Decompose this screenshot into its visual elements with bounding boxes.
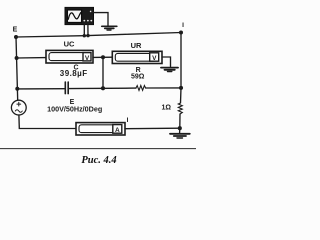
ground (scope)	[102, 26, 117, 30]
wire middle rail left segment	[17, 88, 64, 90]
wire middle rail center segment	[69, 87, 136, 90]
junction left UC branch	[15, 56, 19, 60]
junction scope probe A	[83, 34, 86, 37]
ground (UR)	[161, 68, 178, 72]
wire right rail to 1ohm resistor	[180, 88, 183, 103]
wire right rail upper	[180, 33, 182, 88]
svg-text:V: V	[85, 55, 90, 62]
svg-text:1Ω: 1Ω	[161, 105, 171, 112]
wire scope to ground	[94, 13, 109, 26]
resistor R zigzag	[136, 86, 146, 91]
svg-text:A: A	[115, 127, 120, 134]
wire UR to ground	[162, 57, 171, 67]
wire to UC voltmeter	[17, 57, 46, 59]
junction middle right	[179, 86, 183, 90]
svg-text:E: E	[13, 27, 18, 34]
svg-text:V: V	[152, 55, 157, 62]
wire middle rail right segment	[146, 87, 181, 89]
wire mid vertical branch	[102, 57, 104, 88]
separator rule	[0, 148, 196, 150]
svg-text:39.8µF: 39.8µF	[60, 69, 88, 78]
svg-text:59Ω: 59Ω	[131, 73, 145, 80]
oscilloscope XSC1	[65, 7, 94, 24]
junction top-right node I	[179, 31, 183, 35]
wire to bottom ground	[179, 128, 181, 133]
junction middle branch	[101, 86, 105, 90]
wire source bottom to ammeter	[19, 115, 76, 129]
svg-text:UC: UC	[64, 40, 75, 49]
svg-text:I: I	[182, 22, 184, 29]
svg-text:UR: UR	[131, 41, 142, 50]
wire top rail (node E to node I)	[16, 33, 181, 38]
capacitor C plates	[65, 82, 68, 94]
wire ammeter to bottom right junction	[125, 127, 180, 130]
wire left rail	[16, 37, 18, 100]
ammeter I	[76, 123, 125, 135]
wire scope probe B	[87, 25, 89, 36]
ground (bottom right)	[170, 134, 190, 138]
wire UC to UR with branch	[93, 56, 112, 58]
svg-text:I: I	[127, 117, 129, 124]
svg-text:Рис. 4.4: Рис. 4.4	[81, 155, 116, 166]
svg-text:100V/50Hz/0Deg: 100V/50Hz/0Deg	[47, 104, 102, 113]
voltmeter UC	[46, 50, 93, 63]
junction bottom right	[178, 126, 182, 130]
AC source E	[11, 100, 26, 115]
wire right rail lower	[179, 114, 181, 128]
junction top-left	[14, 35, 18, 39]
junction left capacitor branch	[15, 87, 19, 91]
voltmeter UR	[112, 51, 162, 63]
junction scope probe B	[86, 34, 89, 37]
junction mid branch	[101, 55, 105, 59]
wire scope probe A	[83, 25, 85, 36]
resistor 1ohm zigzag	[178, 103, 182, 114]
